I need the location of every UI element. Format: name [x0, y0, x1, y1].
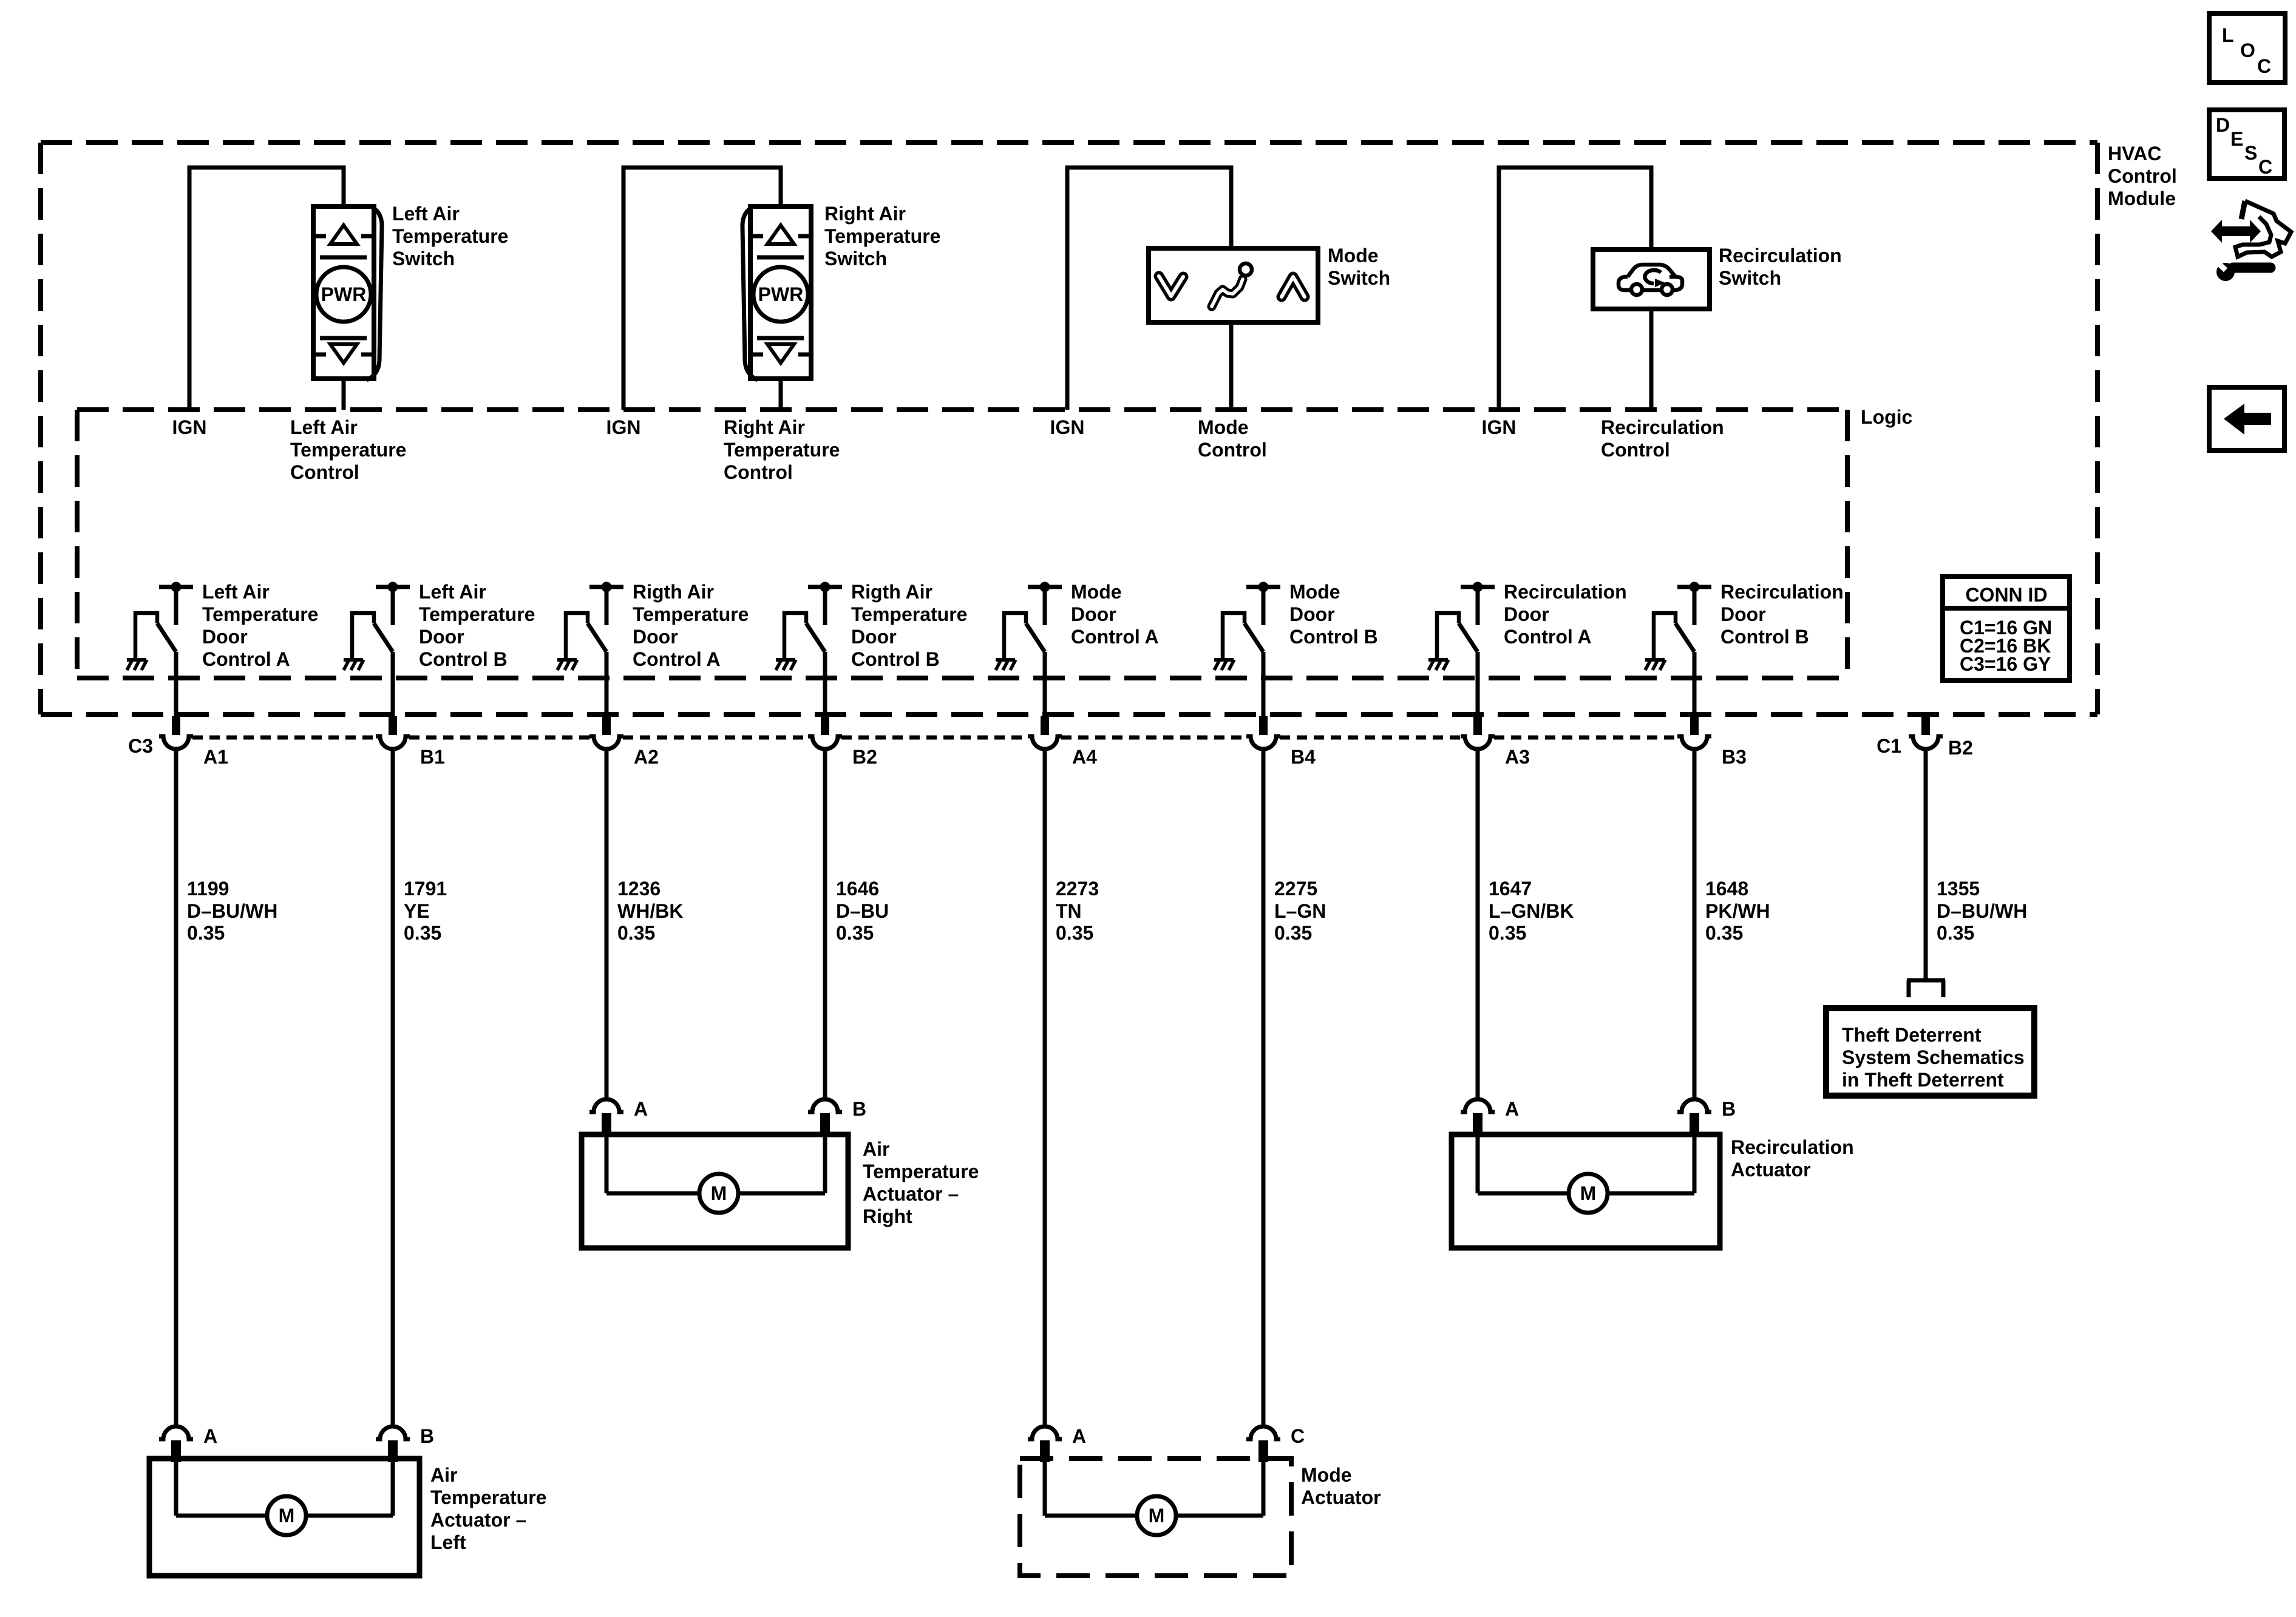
svg-text:C: C [2258, 156, 2272, 178]
switch door-control 4 (Rigth Air Temperature Door Control B) [784, 582, 842, 660]
svg-text:1355: 1355 [1937, 878, 1980, 900]
svg-text:1236: 1236 [617, 878, 661, 900]
wire Mode Switch output [1229, 322, 1234, 410]
label Air Temperature Actuator - Right [863, 1138, 979, 1227]
label C1=16 GN [1960, 617, 2052, 639]
switch S2 Right Air Temperature Switch (rocker with PWR) [742, 206, 811, 380]
label pin B (actuator at x=647) [420, 1425, 434, 1447]
label pin A3 [1505, 746, 1530, 768]
label C2=16 BK [1960, 635, 2051, 657]
svg-text:1647: 1647 [1489, 878, 1532, 900]
svg-text:Mode: Mode [1301, 1464, 1352, 1486]
label Mode Switch [1328, 245, 1390, 289]
svg-text:Actuator: Actuator [1301, 1486, 1381, 1508]
switch door-control 7 (Recirculation Door Control A) [1437, 582, 1495, 660]
svg-text:in Theft Deterrent: in Theft Deterrent [1842, 1069, 2004, 1091]
svg-text:B: B [852, 1098, 866, 1120]
wire circuit 1647 L–GN/BK [1476, 749, 1480, 1099]
svg-text:Theft Deterrent: Theft Deterrent [1842, 1024, 1982, 1046]
svg-text:Mode: Mode [1289, 581, 1340, 603]
svg-text:2275: 2275 [1274, 878, 1317, 900]
svg-text:M: M [1580, 1182, 1597, 1204]
label pin B2 (C1) [1948, 737, 1973, 759]
label Recirculation Door Control A [1504, 581, 1627, 648]
svg-text:L: L [2222, 24, 2234, 46]
connector pin B3 (HVAC control module) [1677, 716, 1711, 749]
wire door-control 7 to connector [1476, 652, 1480, 717]
svg-text:Left: Left [430, 1531, 466, 1553]
label pin A (actuator at x=2434) [1505, 1098, 1519, 1120]
svg-text:A: A [203, 1425, 217, 1447]
wire circuit 1236 WH/BK [605, 749, 609, 1099]
connector pin B2 of C1 [1909, 716, 1943, 749]
svg-text:C: C [2257, 55, 2271, 77]
off-page bracket (to theft deterrent) [1907, 980, 1945, 997]
label CONN ID [1965, 584, 2047, 606]
svg-text:M: M [279, 1505, 295, 1527]
motor M (mode actuator) [1137, 1496, 1176, 1535]
svg-text:Control: Control [2108, 165, 2177, 187]
connector pin A (actuator at x=1721) [1028, 1426, 1062, 1462]
svg-text:0.35: 0.35 [1937, 922, 1974, 944]
wire circuit 1355 D–BU/WH [1924, 749, 1928, 978]
box Air Temperature Actuator - Right [582, 1134, 848, 1248]
svg-text:IGN: IGN [172, 416, 207, 438]
svg-text:Control A: Control A [202, 648, 290, 670]
svg-text:Module: Module [2108, 188, 2176, 209]
svg-text:Temperature: Temperature [430, 1486, 546, 1508]
wires inside left actuator [176, 1459, 393, 1516]
wire IGN feed 3 [1067, 168, 1231, 410]
label wire 2273 TN 0.35 [1056, 878, 1099, 944]
switch S4 Recirculation Switch (box with car icon) [1593, 249, 1710, 309]
svg-text:YE: YE [404, 900, 430, 922]
ground (door-control switch 2) [344, 660, 364, 670]
svg-text:B3: B3 [1722, 746, 1747, 768]
label Left Air Temperature Door Control B [419, 581, 535, 670]
HVAC Control Module boundary (dashed box) [41, 143, 2097, 714]
svg-text:Control B: Control B [419, 648, 508, 670]
wire door-control 2 to connector [391, 652, 395, 717]
svg-text:Rigth Air: Rigth Air [633, 581, 714, 603]
box Theft Deterrent reference [1826, 1008, 2034, 1096]
svg-text:Temperature: Temperature [633, 603, 749, 625]
svg-text:C1: C1 [1877, 735, 1901, 757]
svg-text:Temperature: Temperature [851, 603, 967, 625]
svg-text:Temperature: Temperature [863, 1161, 979, 1182]
label Recirculation Switch [1719, 245, 1842, 289]
wire circuit 1648 PK/WH [1693, 749, 1697, 1099]
svg-text:2273: 2273 [1056, 878, 1099, 900]
box Air Temperature Actuator - Left [149, 1459, 419, 1576]
motor M (right actuator) [699, 1174, 738, 1213]
connector face dotted line [192, 736, 1678, 740]
box Mode Actuator (dashed) [1020, 1459, 1291, 1576]
svg-text:A: A [634, 1098, 648, 1120]
icon DESC box [2209, 110, 2284, 178]
wire Right Air Temperature Switch output [779, 379, 783, 410]
label Left Air Temperature Switch [392, 203, 508, 269]
svg-text:B2: B2 [852, 746, 877, 768]
svg-text:Temperature: Temperature [202, 603, 318, 625]
label wire 1646 D–BU 0.35 [836, 878, 889, 944]
svg-text:A: A [1505, 1098, 1519, 1120]
switch door-control 3 (Rigth Air Temperature Door Control A) [566, 582, 623, 660]
connector pin B (actuator at x=1359) [808, 1099, 842, 1135]
connector pin A (actuator at x=999) [589, 1099, 623, 1135]
svg-text:E: E [2230, 128, 2243, 150]
connector pin C (actuator at x=2081) [1246, 1426, 1280, 1462]
wire Recirculation Switch output [1649, 309, 1654, 410]
wires inside right actuator [606, 1134, 825, 1193]
svg-text:1199: 1199 [187, 878, 229, 900]
svg-text:Left Air: Left Air [392, 203, 460, 225]
switch door-control 2 (Left Air Temperature Door Control B) [352, 582, 410, 660]
svg-text:WH/BK: WH/BK [617, 900, 683, 922]
label IGN 1 [172, 416, 207, 438]
svg-text:Door: Door [202, 626, 248, 648]
svg-text:Actuator –: Actuator – [863, 1183, 959, 1205]
label Logic [1861, 406, 1912, 428]
label pin A1 [203, 746, 228, 768]
svg-text:B2: B2 [1948, 737, 1973, 759]
svg-text:Temperature: Temperature [392, 225, 508, 247]
wire door-control 8 to connector [1693, 652, 1697, 717]
svg-text:Recirculation: Recirculation [1601, 416, 1724, 438]
label Rigth Air Temperature Door Control B [851, 581, 967, 670]
svg-text:D–BU: D–BU [836, 900, 889, 922]
svg-text:Actuator –: Actuator – [430, 1509, 526, 1531]
svg-text:Left Air: Left Air [419, 581, 486, 603]
svg-text:Door: Door [851, 626, 897, 648]
svg-text:C: C [1291, 1425, 1305, 1447]
wire door-control 6 to connector [1262, 652, 1266, 717]
svg-text:Switch: Switch [392, 248, 455, 269]
wire door-control 5 to connector [1043, 652, 1047, 717]
svg-text:IGN: IGN [1482, 416, 1517, 438]
wire circuit 2275 L–GN [1262, 749, 1266, 1426]
ground (door-control switch 1) [127, 660, 147, 670]
label wire 1355 D–BU/WH 0.35 [1937, 878, 2027, 944]
svg-text:CONN ID: CONN ID [1965, 584, 2047, 606]
svg-text:Air: Air [863, 1138, 889, 1160]
svg-text:0.35: 0.35 [1705, 922, 1743, 944]
label connector C3 [128, 735, 153, 757]
connector pin B4 (HVAC control module) [1246, 716, 1280, 749]
label IGN 2 [606, 416, 641, 438]
svg-text:1646: 1646 [836, 878, 879, 900]
svg-text:Actuator: Actuator [1731, 1159, 1811, 1181]
ground (door-control switch 8) [1645, 660, 1665, 670]
label Recirculation Actuator [1731, 1136, 1854, 1181]
svg-text:PWR: PWR [758, 283, 804, 305]
svg-text:Recirculation: Recirculation [1504, 581, 1627, 603]
label Mode Actuator [1301, 1464, 1381, 1508]
connector pin A (actuator at x=290) [159, 1426, 193, 1462]
svg-text:Mode: Mode [1071, 581, 1122, 603]
wires inside mode actuator [1045, 1459, 1263, 1516]
svg-text:Left Air: Left Air [290, 416, 358, 438]
svg-text:Control B: Control B [851, 648, 940, 670]
label pin A (actuator at x=290) [203, 1425, 217, 1447]
svg-text:Recirculation: Recirculation [1720, 581, 1844, 603]
wire door-control 3 to connector [605, 652, 609, 717]
svg-text:0.35: 0.35 [1489, 922, 1526, 944]
label Mode Control (control line name) [1198, 416, 1267, 461]
svg-text:Door: Door [1289, 603, 1335, 625]
svg-text:Temperature: Temperature [824, 225, 940, 247]
label Mode Door Control A [1071, 581, 1159, 648]
svg-text:D–BU/WH: D–BU/WH [187, 900, 277, 922]
label pin C (actuator at x=2081) [1291, 1425, 1305, 1447]
label wire 1791 YE 0.35 [404, 878, 447, 944]
svg-text:Control: Control [290, 461, 359, 483]
label pin B3 [1722, 746, 1747, 768]
svg-text:Control A: Control A [1071, 626, 1159, 648]
svg-text:Air: Air [430, 1464, 457, 1486]
switch door-control 5 (Mode Door Control A) [1004, 582, 1062, 660]
label Left Air Control (control line name) [290, 416, 406, 483]
wire door-control 4 to connector [823, 652, 827, 717]
svg-text:C3=16 GY: C3=16 GY [1960, 653, 2051, 675]
svg-text:Switch: Switch [1328, 267, 1390, 289]
svg-text:System Schematics: System Schematics [1842, 1046, 2025, 1068]
svg-text:B: B [420, 1425, 434, 1447]
svg-text:Mode: Mode [1198, 416, 1249, 438]
ground (door-control switch 7) [1428, 660, 1449, 670]
connector pin A3 (HVAC control module) [1461, 716, 1495, 749]
switch door-control 8 (Recirculation Door Control B) [1654, 582, 1711, 660]
label C3=16 GY [1960, 653, 2051, 675]
motor M (recirculation actuator) [1569, 1174, 1608, 1213]
svg-text:Control B: Control B [1289, 626, 1378, 648]
wire IGN feed 2 [623, 168, 781, 410]
wire Left Air Temperature Switch output [342, 379, 346, 410]
label wire 2275 L–GN 0.35 [1274, 878, 1326, 944]
label Right Air Control (control line name) [724, 416, 840, 483]
Logic boundary (dashed box) [77, 410, 1847, 678]
svg-text:PK/WH: PK/WH [1705, 900, 1770, 922]
svg-text:0.35: 0.35 [187, 922, 225, 944]
wire IGN feed 4 [1499, 168, 1651, 410]
connector pin A2 (HVAC control module) [589, 716, 623, 749]
label pin B2 [852, 746, 877, 768]
svg-text:Control B: Control B [1720, 626, 1809, 648]
label Rigth Air Temperature Door Control A [633, 581, 749, 670]
ground (door-control switch 3) [557, 660, 577, 670]
svg-text:Control A: Control A [633, 648, 721, 670]
svg-text:0.35: 0.35 [1056, 922, 1093, 944]
ground (door-control switch 4) [776, 660, 796, 670]
label Recirculation Control (control line name) [1601, 416, 1724, 461]
svg-text:L–GN: L–GN [1274, 900, 1326, 922]
label wire 1236 WH/BK 0.35 [617, 878, 683, 944]
label Mode Door Control B [1289, 581, 1378, 648]
connector pin A (actuator at x=2434) [1461, 1099, 1495, 1135]
svg-text:B4: B4 [1291, 746, 1316, 768]
label wire 1648 PK/WH 0.35 [1705, 878, 1770, 944]
wire circuit 2273 TN [1043, 749, 1047, 1426]
label pin A2 [634, 746, 659, 768]
wires inside recirculation actuator [1478, 1134, 1694, 1193]
connector pin A1 (HVAC control module) [159, 716, 193, 749]
svg-text:L–GN/BK: L–GN/BK [1489, 900, 1574, 922]
svg-text:Door: Door [633, 626, 678, 648]
wire door-control 1 to connector [174, 652, 178, 717]
label connector C1 [1877, 735, 1901, 757]
svg-text:0.35: 0.35 [617, 922, 655, 944]
svg-text:Mode: Mode [1328, 245, 1379, 266]
svg-text:Control: Control [1601, 439, 1670, 461]
ground (door-control switch 6) [1214, 660, 1234, 670]
svg-text:S: S [2244, 142, 2257, 164]
svg-text:Control: Control [724, 461, 793, 483]
svg-text:Door: Door [1504, 603, 1549, 625]
connector pin B1 (HVAC control module) [376, 716, 410, 749]
svg-text:0.35: 0.35 [836, 922, 874, 944]
motor M (left actuator) [267, 1496, 306, 1535]
svg-text:Temperature: Temperature [290, 439, 406, 461]
label IGN 3 [1050, 416, 1085, 438]
svg-text:Door: Door [1720, 603, 1766, 625]
icon back-arrow box [2209, 387, 2284, 450]
svg-text:A: A [1072, 1425, 1086, 1447]
connector pin A4 (HVAC control module) [1028, 716, 1062, 749]
svg-text:B1: B1 [420, 746, 445, 768]
svg-text:Control A: Control A [1504, 626, 1592, 648]
connector pin B2 (HVAC control module) [808, 716, 842, 749]
label wire 1199 D–BU/WH 0.35 [187, 878, 277, 944]
svg-text:A1: A1 [203, 746, 228, 768]
wire circuit 1791 YE [391, 749, 395, 1426]
label wire 1647 L–GN/BK 0.35 [1489, 878, 1574, 944]
svg-text:A2: A2 [634, 746, 659, 768]
svg-text:Logic: Logic [1861, 406, 1912, 428]
wire IGN feed 1 [189, 168, 344, 410]
switch door-control 6 (Mode Door Control B) [1223, 582, 1280, 660]
svg-text:A3: A3 [1505, 746, 1530, 768]
svg-text:IGN: IGN [606, 416, 641, 438]
label pin B (actuator at x=1359) [852, 1098, 866, 1120]
label Air Temperature Actuator - Left [430, 1464, 546, 1553]
icon LOC box [2209, 13, 2285, 83]
label Left Air Temperature Door Control A [202, 581, 318, 670]
svg-text:IGN: IGN [1050, 416, 1085, 438]
svg-text:0.35: 0.35 [1274, 922, 1312, 944]
connector pin B (actuator at x=647) [376, 1426, 410, 1462]
svg-text:Rigth Air: Rigth Air [851, 581, 932, 603]
switch S3 Mode Switch (box with vent icons) [1149, 248, 1318, 322]
label Recirculation Door Control B [1720, 581, 1844, 648]
svg-text:B: B [1722, 1098, 1736, 1120]
wire circuit 1646 D–BU [823, 749, 827, 1099]
label Right Air Temperature Switch [824, 203, 940, 269]
wire circuit 1199 D–BU/WH [174, 749, 178, 1426]
table CONN ID box [1943, 577, 2070, 680]
label pin B (actuator at x=2791) [1722, 1098, 1736, 1120]
icon adjustable-component (arrows and wrench) [2211, 201, 2291, 281]
svg-text:Right Air: Right Air [824, 203, 906, 225]
label Theft Deterrent System Schematics [1842, 1024, 2025, 1091]
switch door-control 1 (Left Air Temperature Door Control A) [135, 582, 193, 660]
label IGN 4 [1482, 416, 1517, 438]
svg-text:Left Air: Left Air [202, 581, 270, 603]
svg-text:A4: A4 [1072, 746, 1097, 768]
svg-text:Switch: Switch [1719, 267, 1781, 289]
svg-text:HVAC: HVAC [2108, 143, 2161, 164]
svg-text:C3: C3 [128, 735, 153, 757]
label pin B4 [1291, 746, 1316, 768]
label pin A4 [1072, 746, 1097, 768]
connector pin B (actuator at x=2791) [1677, 1099, 1711, 1135]
svg-text:M: M [1149, 1505, 1165, 1527]
svg-text:TN: TN [1056, 900, 1082, 922]
svg-text:M: M [711, 1182, 727, 1204]
svg-text:D–BU/WH: D–BU/WH [1937, 900, 2027, 922]
svg-text:Door: Door [1071, 603, 1116, 625]
svg-text:Recirculation: Recirculation [1731, 1136, 1854, 1158]
switch S1 Left Air Temperature Switch (rocker with PWR) [313, 206, 382, 380]
svg-text:D: D [2216, 114, 2230, 136]
svg-text:Right: Right [863, 1205, 912, 1227]
svg-text:1648: 1648 [1705, 878, 1748, 900]
ground (door-control switch 5) [996, 660, 1016, 670]
label pin B1 [420, 746, 445, 768]
box Recirculation Actuator [1452, 1134, 1720, 1248]
svg-text:Recirculation: Recirculation [1719, 245, 1842, 266]
label pin A (actuator at x=1721) [1072, 1425, 1086, 1447]
label HVAC Control Module [2108, 143, 2177, 209]
svg-text:Door: Door [419, 626, 464, 648]
svg-text:Control: Control [1198, 439, 1267, 461]
svg-text:Temperature: Temperature [419, 603, 535, 625]
svg-text:O: O [2240, 39, 2255, 61]
svg-text:0.35: 0.35 [404, 922, 441, 944]
label pin A (actuator at x=999) [634, 1098, 648, 1120]
svg-text:Switch: Switch [824, 248, 887, 269]
svg-text:Temperature: Temperature [724, 439, 840, 461]
svg-text:PWR: PWR [321, 283, 367, 305]
svg-text:Right Air: Right Air [724, 416, 805, 438]
svg-text:1791: 1791 [404, 878, 447, 900]
